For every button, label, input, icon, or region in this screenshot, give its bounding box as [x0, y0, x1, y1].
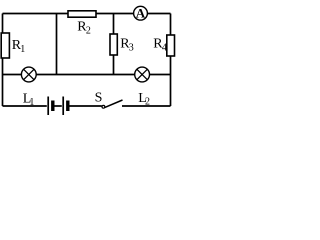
- svg-text:A: A: [136, 5, 146, 20]
- svg-text:1: 1: [20, 44, 25, 55]
- svg-text:4: 4: [162, 42, 167, 53]
- svg-text:3: 3: [129, 43, 134, 54]
- svg-text:1: 1: [29, 97, 34, 108]
- svg-text:S: S: [95, 91, 103, 106]
- svg-text:2: 2: [145, 97, 150, 108]
- svg-text:2: 2: [86, 25, 91, 36]
